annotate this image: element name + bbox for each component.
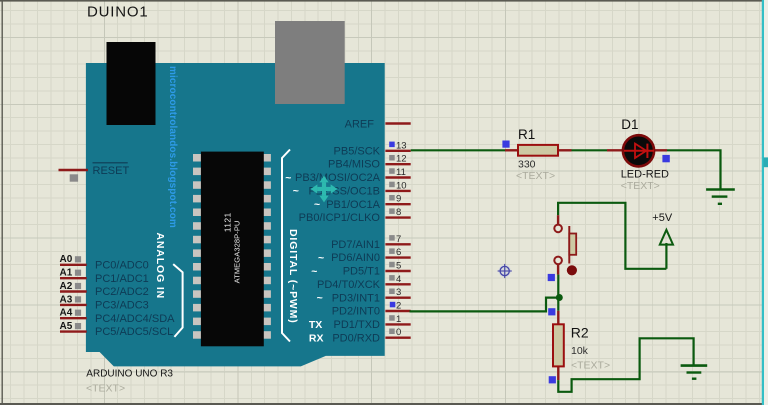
- svg-text:A1: A1: [60, 268, 73, 279]
- pin number 9: [389, 194, 401, 205]
- svg-text:PD5/T1: PD5/T1: [343, 266, 380, 278]
- wire endpoint marker blue: [548, 274, 555, 281]
- wire R1 to D1: [572, 149, 608, 151]
- push button: [554, 215, 577, 275]
- wire button to junction: [557, 275, 559, 298]
- terminal A4: [60, 308, 87, 319]
- pin number 4: [389, 274, 401, 285]
- svg-text:R2: R2: [571, 325, 589, 341]
- pin number 12: [389, 154, 406, 165]
- svg-text:PD6/AIN0: PD6/AIN0: [331, 252, 380, 264]
- wire button to +5V net: [558, 203, 666, 269]
- scrollbar thumb: [763, 157, 768, 167]
- svg-text:1: 1: [396, 314, 401, 325]
- svg-text:PB1/OC1A: PB1/OC1A: [326, 199, 380, 211]
- svg-text:ARDUINO UNO R3: ARDUINO UNO R3: [86, 369, 173, 380]
- svg-text:+5V: +5V: [652, 212, 673, 224]
- svg-text:PD7/AIN1: PD7/AIN1: [331, 239, 380, 251]
- chip atmega pins right: [263, 154, 271, 339]
- svg-text:PC2/ADC2: PC2/ADC2: [95, 286, 149, 298]
- origin marker: [498, 264, 512, 278]
- svg-text:8: 8: [396, 207, 401, 218]
- svg-text:330: 330: [518, 159, 536, 171]
- svg-text:0: 0: [396, 327, 401, 338]
- svg-text:DIGITAL (~PWM): DIGITAL (~PWM): [287, 229, 299, 324]
- pin label RESET with overline: [93, 163, 130, 177]
- svg-text:7: 7: [396, 234, 401, 245]
- svg-text:10k: 10k: [571, 345, 589, 357]
- svg-text:PB0/ICP1/CLKO: PB0/ICP1/CLKO: [299, 212, 381, 224]
- svg-text:PB3/MOSI/OC2A: PB3/MOSI/OC2A: [295, 172, 381, 184]
- svg-text:ANALOG IN: ANALOG IN: [154, 233, 166, 300]
- svg-text:PD3/INT1: PD3/INT1: [332, 292, 380, 304]
- pin number 3: [389, 287, 401, 298]
- svg-text:A3: A3: [60, 294, 73, 305]
- svg-text:TX: TX: [309, 319, 322, 331]
- wire endpoint marker blue: [502, 141, 509, 148]
- move cursor crosshair: [311, 176, 338, 203]
- svg-text:4: 4: [396, 274, 401, 285]
- svg-text:PD2/INT0: PD2/INT0: [332, 306, 380, 318]
- svg-text:D1: D1: [621, 117, 638, 132]
- pin number 8: [389, 207, 401, 218]
- pin stub RESET: [59, 169, 88, 171]
- wire pin13 to R1: [411, 149, 505, 151]
- svg-text:10: 10: [396, 180, 407, 191]
- svg-text:PC4/ADC4/SDA: PC4/ADC4/SDA: [95, 313, 175, 325]
- sheet border right cyan: [764, 0, 768, 405]
- svg-text:<TEXT>: <TEXT>: [516, 170, 555, 182]
- wire D1 to ground: [667, 150, 721, 188]
- chip U atmega pins left: [193, 154, 201, 339]
- terminal A1: [60, 268, 87, 279]
- wire endpoint marker blue: [549, 376, 556, 383]
- svg-text:microcontrolandos.blogspot.com: microcontrolandos.blogspot.com: [167, 66, 178, 228]
- svg-text:<TEXT>: <TEXT>: [571, 360, 610, 372]
- terminal A0: [60, 254, 87, 265]
- svg-text:A0: A0: [60, 254, 73, 265]
- svg-text:~: ~: [314, 199, 320, 211]
- pin stub AREF: [385, 122, 410, 124]
- svg-text:PC0/ADC0: PC0/ADC0: [95, 259, 149, 271]
- ground top right: [706, 190, 735, 204]
- power +5V: [660, 230, 673, 269]
- svg-text:A2: A2: [60, 281, 73, 292]
- wire pin2 to junction: [410, 298, 559, 312]
- svg-text:R1: R1: [518, 127, 535, 142]
- svg-text:ATMEGA328P-PU: ATMEGA328P-PU: [232, 221, 241, 284]
- svg-text:PC5/ADC5/SCL: PC5/ADC5/SCL: [95, 326, 173, 338]
- pin number 1: [389, 314, 401, 325]
- right pin stubs 13..8: [385, 151, 410, 218]
- pin number 5: [389, 261, 401, 272]
- svg-text:~: ~: [285, 172, 291, 184]
- svg-text:RX: RX: [309, 332, 324, 344]
- analog pin labels: [95, 259, 175, 338]
- svg-text:5: 5: [396, 261, 401, 272]
- bracket digital group: [282, 150, 290, 342]
- power jack: [107, 42, 156, 125]
- bracket analog group: [173, 264, 182, 337]
- pin number 10: [389, 180, 406, 191]
- terminal A2: [60, 281, 87, 292]
- svg-text:~: ~: [311, 265, 317, 277]
- svg-text:3: 3: [396, 287, 401, 298]
- wire endpoint marker blue: [548, 308, 555, 315]
- unconnected marker RESET: [70, 174, 78, 181]
- svg-text:PD0/RXD: PD0/RXD: [332, 332, 380, 344]
- svg-text:~: ~: [318, 252, 324, 264]
- chip ATMEGA328P body: [201, 152, 264, 347]
- pin number 13 (blue connected): [389, 140, 406, 151]
- svg-text:1121: 1121: [223, 212, 233, 232]
- svg-text:13: 13: [396, 140, 407, 151]
- right pin stubs 7..0: [385, 244, 410, 337]
- pwm tildes: [285, 172, 324, 304]
- svg-text:~: ~: [317, 292, 323, 304]
- svg-text:2: 2: [396, 301, 401, 312]
- resistor R1: [505, 145, 572, 156]
- svg-text:PB5/SCK: PB5/SCK: [334, 145, 381, 157]
- led D1: [607, 135, 667, 166]
- arduino module DUINO1 board body: [86, 63, 385, 366]
- pin number 2 (blue connected): [390, 301, 401, 312]
- svg-text:9: 9: [396, 194, 401, 205]
- svg-text:AREF: AREF: [345, 118, 375, 130]
- svg-text:RESET: RESET: [93, 165, 130, 177]
- ground bottom right: [681, 366, 708, 379]
- svg-text:<TEXT>: <TEXT>: [621, 180, 660, 192]
- digital pin labels right side: [295, 145, 381, 344]
- pin number 11: [389, 167, 406, 178]
- svg-text:PC1/ADC1: PC1/ADC1: [95, 273, 149, 285]
- resistor R2: [553, 311, 564, 380]
- sheet border bottom: [0, 403, 768, 405]
- sheet border left: [2, 0, 3, 405]
- svg-text:PD4/T0/XCK: PD4/T0/XCK: [317, 279, 381, 291]
- svg-text:A5: A5: [60, 321, 73, 332]
- usb connector: [275, 21, 345, 104]
- svg-text:<TEXT>: <TEXT>: [86, 383, 125, 395]
- svg-text:~: ~: [293, 185, 299, 197]
- terminal A3: [60, 294, 87, 305]
- wire endpoint marker blue: [662, 155, 669, 162]
- wire junction to R2: [557, 298, 559, 311]
- sheet border top: [0, 0, 768, 2]
- svg-text:PC3/ADC3: PC3/ADC3: [95, 300, 149, 312]
- svg-text:PB4/MISO: PB4/MISO: [328, 159, 380, 171]
- wire R2 to ground: [558, 338, 693, 392]
- junction node: [556, 294, 563, 301]
- terminal A5: [60, 321, 87, 332]
- pin number 6: [389, 247, 401, 258]
- svg-text:11: 11: [396, 167, 406, 178]
- svg-text:A4: A4: [60, 308, 73, 319]
- svg-text:PD1/TXD: PD1/TXD: [334, 319, 381, 331]
- pin number 0: [389, 327, 401, 338]
- svg-text:LED-RED: LED-RED: [621, 168, 669, 180]
- svg-text:6: 6: [396, 247, 401, 258]
- pin number 7: [389, 234, 401, 245]
- svg-text:DUINO1: DUINO1: [87, 4, 148, 21]
- svg-text:12: 12: [396, 154, 407, 165]
